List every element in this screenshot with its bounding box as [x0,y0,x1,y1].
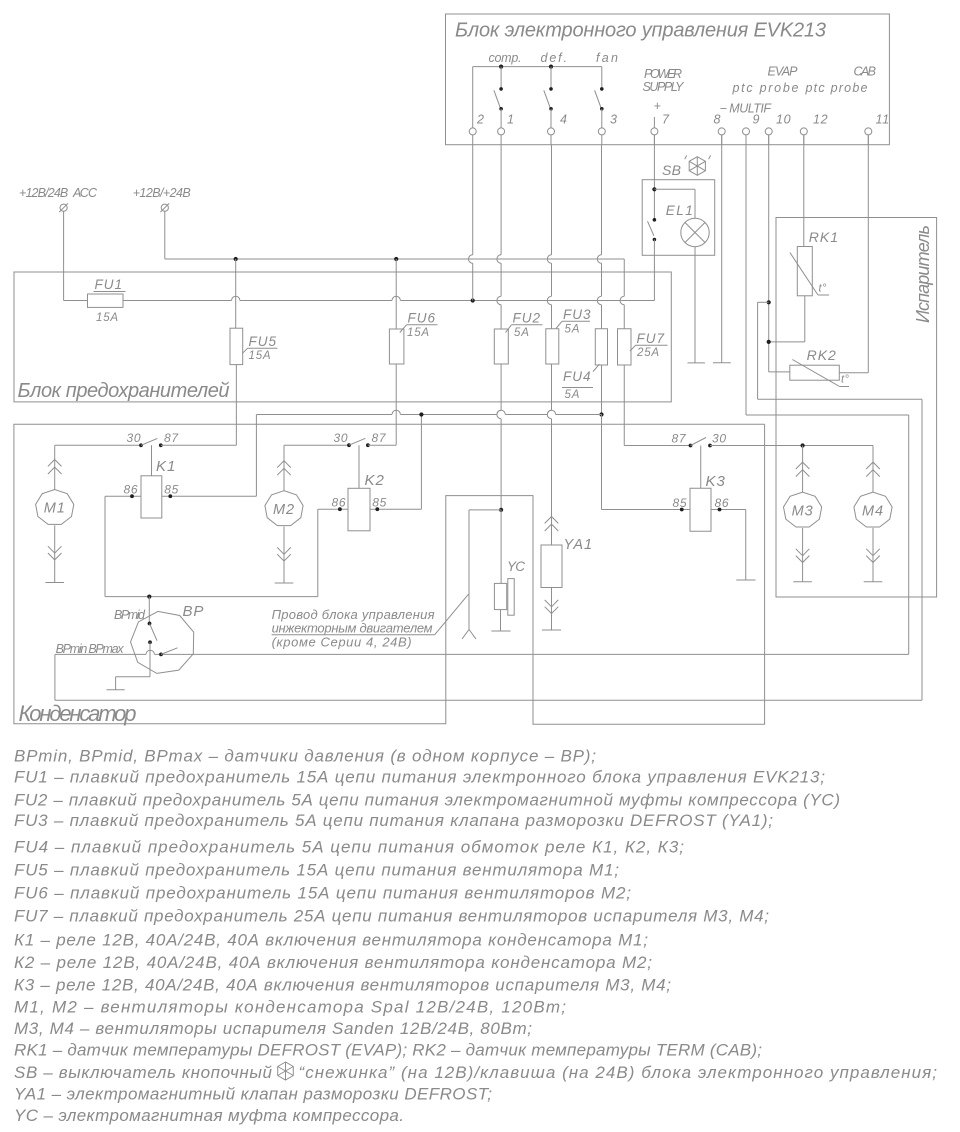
clutch YC [494,559,525,631]
ECU terminal pin 7 [651,113,670,145]
svg-text:M4: M4 [862,503,884,519]
thermistor RK1 [790,229,839,296]
svg-text:К1 – реле 12В, 40А/24В, 40А вк: К1 – реле 12В, 40А/24В, 40А включения ве… [14,931,648,950]
wire: +24V supply bus [165,257,624,261]
motor M2 [265,445,303,583]
wire: EL1 to ground [694,247,696,363]
lamp EL1 [654,189,709,246]
fuse block box [14,272,671,402]
svg-text:RK1 – датчик температуры DEFRO: RK1 – датчик температуры DEFROST (EVAP);… [14,1041,762,1060]
svg-text:FU4: FU4 [563,369,592,384]
svg-text:FU1: FU1 [95,277,124,292]
svg-text:CAB: CAB [854,65,877,79]
fuse FU2 [494,311,542,365]
wire: pin 9 to BP max switch [746,135,909,655]
svg-text:85: 85 [673,496,688,510]
svg-text:86: 86 [715,496,730,510]
svg-text:M3: M3 [792,503,814,519]
svg-text:FU4 – плавкий предохранитель 5: FU4 – плавкий предохранитель 5А цепи пит… [14,838,684,857]
svg-text:POWER: POWER [644,67,682,81]
label EVAP ptc probe [732,65,799,96]
svg-text:15А: 15А [407,327,430,339]
wire: K3 pin 86 to ground [711,508,746,580]
svg-text:1: 1 [507,113,515,127]
svg-text:85: 85 [164,483,179,497]
ground (BP) [107,689,125,691]
wire: +24V terminal to supply bus [164,211,166,259]
svg-text:FU5: FU5 [249,334,278,349]
svg-text:Блок предохранителей: Блок предохранителей [18,380,230,402]
relay K3 coil [673,446,730,532]
wire: FU2 to clutch YC [497,364,503,583]
snowflake icon [685,155,711,175]
svg-text:85: 85 [372,496,387,510]
terminal +12V/+24V [133,186,191,212]
svg-text:инжекторным двигателем: инжекторным двигателем [272,621,433,636]
wire: pin 1 to FU2 [497,145,501,329]
svg-text:M2: M2 [273,502,295,518]
wire: FU1 output bus to SB switch [123,296,655,302]
wire: pin 12 to RK1 [803,135,805,247]
svg-text:3: 3 [610,113,618,127]
svg-text:K2: K2 [365,472,385,489]
svg-text:Конденсатор: Конденсатор [19,701,137,726]
pressure sensor BP body [56,603,205,673]
wire: engine control unit lead [462,510,501,639]
fuse FU1 [88,277,126,324]
svg-text:FU2 – плавкий предохранитель 5: FU2 – плавкий предохранитель 5А цепи пит… [14,790,840,809]
motor M4 [854,446,892,582]
svg-text:+: + [654,99,662,113]
wire: K1 pin 86 to BP bus [105,494,141,596]
wire: FU3 to valve YA1 [547,364,551,517]
wire: FU5 to relay K1 contact 87 [235,365,237,446]
ground (pin 8) [713,362,731,364]
svg-text:FU5 – плавкий предохранитель 1: FU5 – плавкий предохранитель 15А цепи пи… [14,861,619,880]
svg-text:5А: 5А [565,389,581,401]
fuse FU5 [230,259,278,365]
svg-text:fan: fan [596,51,618,65]
push-button SB box [642,162,715,255]
svg-text:10: 10 [776,113,791,127]
svg-text:FU3: FU3 [563,307,592,322]
ground (K3) [736,579,755,581]
svg-text:RK1: RK1 [809,229,839,245]
svg-text:FU6: FU6 [408,311,437,326]
relay K1 coil [124,445,180,518]
svg-text:30: 30 [334,431,349,445]
label - MULTIF [720,102,773,116]
svg-text:2: 2 [476,113,485,127]
wire: ACC terminal to FU1 [64,211,88,300]
svg-text:7: 7 [662,113,670,127]
wire: FU4 relay coil bus [256,365,690,510]
svg-text:SUPPLY: SUPPLY [643,80,686,94]
wire: pin 4 to FU3 [547,145,551,329]
svg-text:EVAP: EVAP [768,65,799,79]
switch comp. (ECU) [489,51,522,128]
svg-text:Блок электронного управления E: Блок электронного управления EVK213 [455,20,826,42]
relay K3 contact 87-30 [672,432,874,448]
evaporator box (Испаритель) [776,218,937,598]
wire: K2 pin 86 to BP bus [318,507,348,596]
wire: FU7 to relay K3 contact 87 [624,365,690,446]
ECU terminal pin 4 [548,113,568,145]
svg-text:ptc probe: ptc probe [805,81,868,95]
svg-text:FU6 – плавкий предохранитель 1: FU6 – плавкий предохранитель 15А цепи пи… [14,884,631,903]
svg-text:def.: def. [541,51,568,65]
wire: pin 10 branch to BP return [758,302,922,700]
ECU terminal pin 12 [800,113,828,145]
svg-text:12: 12 [813,113,828,127]
fuse FU4 [562,329,608,401]
ECU terminal pin 1 [498,113,515,145]
motor M1 [36,445,74,582]
relay K1 contact 30-87 [55,431,237,447]
fuse FU3 [546,307,592,364]
svg-text:YC – электромагнитная муфта ко: YC – электромагнитная муфта компрессора. [14,1106,404,1125]
fuse FU7 [618,259,668,365]
svg-text:87: 87 [372,431,387,445]
electronic control unit EVK213 box [446,14,890,145]
wire: FU6 to relay K2 contact 87 [395,364,397,445]
ECU terminal pin 8 [714,113,726,145]
wire: pin 3 to FU4 [597,145,601,329]
wire: BPmid to ground [116,642,150,690]
switch BPmid [148,597,157,645]
svg-text:SB: SB [662,162,681,178]
ground (YC) [491,630,510,632]
svg-text:FU2: FU2 [513,311,542,326]
svg-text:YA1 – электромагнитный клапан: YA1 – электромагнитный клапан разморозки… [14,1084,492,1103]
svg-text:9: 9 [753,113,761,127]
switch def. (ECU) [541,51,568,128]
wire: BP return bus bottom [55,654,922,700]
ECU terminal pin 9 [743,113,761,145]
svg-text:RK2: RK2 [807,347,837,363]
svg-text:К2 – реле 12В, 40А/24В, 40А вк: К2 – реле 12В, 40А/24В, 40А включения ве… [14,953,652,972]
svg-text:+12В/24В АСС: +12В/24В АСС [19,186,98,200]
svg-text:86: 86 [332,496,347,510]
label POWER SUPPLY + [643,67,686,128]
legend text [14,747,937,1125]
svg-text:+12В/+24В: +12В/+24В [133,186,191,200]
svg-text:BP: BP [183,603,205,620]
wire: BP switch to pin 9 riser [55,650,909,654]
svg-text:5А: 5А [565,324,581,336]
condenser box (Конденсатор) [14,424,765,726]
svg-text:SB – выключатель кнопочный: SB – выключатель кнопочный [14,1063,273,1082]
svg-text:87: 87 [672,432,687,446]
ECU terminal pin 10 [765,113,791,145]
svg-text:FU7: FU7 [637,331,666,346]
svg-text:FU7 – плавкий предохранитель 2: FU7 – плавкий предохранитель 25А цепи пи… [14,907,769,926]
svg-text:BPmin BPmax: BPmin BPmax [56,642,125,656]
svg-text:8: 8 [714,113,722,127]
svg-text:87: 87 [164,431,179,445]
svg-text:ptc probe: ptc probe [732,81,799,95]
svg-text:М1, М2 – вентиляторы конденсат: М1, М2 – вентиляторы конденсатора Spal 1… [14,998,566,1017]
wire: RK1 to pin 10 node [769,296,805,342]
thermistor RK2 [790,347,850,387]
relay K2 coil [332,445,388,531]
ground (YA1) [542,629,561,631]
svg-text:15А: 15А [249,350,272,362]
svg-text:EL1: EL1 [666,203,693,218]
relay K2 contact 30-87 [284,431,396,447]
wire: relay 86 bus to BP [105,595,318,599]
svg-text:FU1 – плавкий предохранитель 1: FU1 – плавкий предохранитель 15А цепи пи… [14,767,825,786]
svg-text:t°: t° [841,374,850,386]
motor M3 [784,446,822,582]
svg-text:11: 11 [876,113,890,127]
wire: pin 2 to FU1 bus [469,145,473,301]
svg-text:(кроме Серии 4, 24В): (кроме Серии 4, 24В) [272,635,412,650]
svg-text:86: 86 [124,483,139,497]
svg-text:FU3 – плавкий предохранитель 5: FU3 – плавкий предохранитель 5А цепи пит… [14,811,773,830]
terminal +12V/24V ACC [19,186,98,212]
svg-text:25А: 25А [636,347,660,359]
svg-text:M1: M1 [44,501,66,517]
svg-text:30: 30 [712,432,727,446]
wire: K1 pin 85 to coil bus [162,415,257,499]
svg-text:“снежинка” (на 12В)/клавиша (н: “снежинка” (на 12В)/клавиша (на 24В) бло… [299,1063,938,1082]
svg-text:К3 – реле 12В, 40А/24В, 40А вк: К3 – реле 12В, 40А/24В, 40А включения ве… [14,976,671,995]
svg-text:comp.: comp. [489,51,522,65]
node: switch common bus (pin 2) [473,65,602,128]
ECU terminal pin 2 [469,113,484,145]
svg-text:YA1: YA1 [564,537,594,553]
svg-text:BPmin, BPmid, BPmax – датчики: BPmin, BPmid, BPmax – датчики давления (… [14,747,596,766]
svg-text:Испаритель: Испаритель [913,225,933,323]
wire: pin 8 to ground [721,135,723,363]
wire: pin 7 to SB switch [652,135,656,220]
solenoid valve YA1 [541,517,593,631]
callout: engine control wire note [272,594,469,649]
svg-text:K3: K3 [706,473,726,490]
ground (EL1) [688,362,705,364]
fuse FU6 [389,259,437,364]
switch fan (ECU) [595,51,618,128]
svg-text:30: 30 [127,431,142,445]
wire: K2 pin 85 to coil bus [370,412,424,511]
svg-text:− MULTIF: − MULTIF [720,102,773,116]
svg-text:K1: K1 [156,458,176,475]
svg-text:15А: 15А [96,312,119,324]
label CAB ptc probe [805,65,877,96]
switch SB [648,218,657,301]
svg-text:BPmid: BPmid [114,608,146,622]
svg-text:4: 4 [560,113,568,127]
ECU terminal pin 3 [598,113,617,145]
svg-text:YC: YC [507,559,525,574]
svg-text:t°: t° [819,283,828,295]
wire: RK2 to pin 11 [839,135,868,373]
ECU terminal pin 11 [865,113,890,145]
svg-text:М3, М4 – вентиляторы испарител: М3, М4 – вентиляторы испарителя Sanden 1… [14,1019,532,1038]
switch BPmin BPmax [159,648,177,657]
wire: pin 10 down [767,135,790,372]
svg-text:5А: 5А [514,327,530,339]
